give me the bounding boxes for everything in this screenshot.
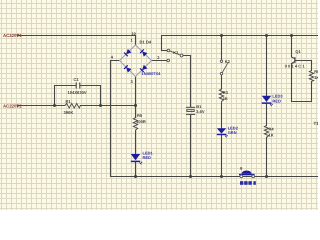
LED LED3 xyxy=(262,94,284,106)
svg-text:390K: 390K xyxy=(64,110,74,115)
wire C1 branch left riser and top xyxy=(55,86,76,106)
wire bridge left lead down to bottom rail xyxy=(111,61,120,177)
svg-text:9014C1: 9014C1 xyxy=(285,64,306,69)
diode D1 upper-left xyxy=(124,49,131,56)
wire R1 right to bridge bottom node xyxy=(80,105,135,107)
resistor R5 xyxy=(133,113,146,132)
wire K2 bottom to R3 xyxy=(221,75,223,89)
wire R4 to rail xyxy=(266,138,268,177)
diode D3 lower-left xyxy=(124,65,131,72)
svg-text:R6: R6 xyxy=(314,69,318,74)
svg-text:1K: 1K xyxy=(223,96,228,101)
wire R3 to LED2 xyxy=(221,104,223,129)
junction node K2 top rail xyxy=(220,34,223,37)
junction node bridge-bottom / AC2 xyxy=(134,104,137,107)
svg-text:R4: R4 xyxy=(269,126,275,131)
bridge rectifier D1-D4 outline xyxy=(120,45,152,77)
svg-text:AC220V2: AC220V2 xyxy=(3,104,22,109)
diode D4 lower-right xyxy=(140,65,147,72)
wire C1 branch right side xyxy=(81,86,101,106)
resistor R6 xyxy=(309,69,320,81)
wire AC220V2 to RC node xyxy=(18,105,65,107)
wire top rail down to K2 xyxy=(221,36,223,61)
svg-text:K1: K1 xyxy=(173,50,179,55)
junction node LED2 bottom rail xyxy=(220,175,223,178)
svg-text:AC220V1: AC220V1 xyxy=(3,33,22,38)
wire top rail from K1 contact up and right to edge xyxy=(162,36,319,51)
junction node RC right xyxy=(99,104,102,107)
svg-text:10: 10 xyxy=(132,32,136,36)
transistor Q1 xyxy=(285,49,306,69)
junction node LED3 top rail xyxy=(265,34,268,37)
wire LED2 to rail xyxy=(221,135,223,177)
wire LED3 to R4 xyxy=(266,104,268,126)
svg-text:T1: T1 xyxy=(314,121,319,126)
wire bridge bottom lead xyxy=(135,77,137,118)
wire bridge right lead to K1 contact xyxy=(152,60,167,62)
svg-text:RED: RED xyxy=(272,98,281,103)
svg-text:3.6V: 3.6V xyxy=(196,109,205,114)
junction node R4 bottom rail xyxy=(265,175,268,178)
svg-text:R5: R5 xyxy=(137,113,143,118)
junction node battery bottom rail xyxy=(189,175,192,178)
svg-text:100R: 100R xyxy=(136,119,146,124)
port AC220V1 xyxy=(3,33,22,38)
resistor R4 xyxy=(264,126,274,138)
wire R6 bottom loop to emitter xyxy=(292,64,312,102)
wire bottom rail xyxy=(111,176,319,178)
svg-text:C1: C1 xyxy=(74,77,80,82)
junction node LED1 bottom rail xyxy=(134,175,137,178)
svg-text:1K: 1K xyxy=(314,75,318,80)
wire K1 upper contact feed xyxy=(162,50,168,52)
junction node RC left xyxy=(53,104,56,107)
svg-text:R1: R1 xyxy=(66,99,72,104)
svg-text:1N4007X4: 1N4007X4 xyxy=(142,71,162,76)
diode D2 upper-right xyxy=(140,49,147,56)
capacitor C1 xyxy=(68,77,87,95)
switch K1 xyxy=(167,49,183,62)
svg-text:R3: R3 xyxy=(223,90,229,95)
wire Q1 base to R6 top xyxy=(295,61,312,71)
svg-text:GRN: GRN xyxy=(228,130,237,135)
switch K2 xyxy=(220,59,230,75)
wire top rail down to Q1 collector xyxy=(291,36,293,58)
resistor R1 xyxy=(64,99,81,115)
LED LED1 xyxy=(131,151,154,165)
svg-text:RED: RED xyxy=(143,155,152,160)
battery B1 xyxy=(186,104,205,114)
LED LED2 xyxy=(217,126,239,138)
wire K1 common to battery top xyxy=(183,56,191,107)
buzzer B xyxy=(239,167,255,178)
svg-text:1K: 1K xyxy=(269,132,274,137)
wire AC220V1 to bridge top xyxy=(19,36,136,46)
wire battery bottom to rail xyxy=(190,115,192,177)
wire R5 to LED1 xyxy=(135,132,137,154)
wire top rail down to LED3 xyxy=(266,36,268,96)
junction node Q1 top rail xyxy=(290,34,293,37)
buzzer name blue glyphs xyxy=(240,181,256,185)
port AC220V2 xyxy=(3,104,22,109)
wire LED1 to bottom rail xyxy=(135,162,137,176)
svg-text:Q1: Q1 xyxy=(295,49,301,54)
svg-text:D1 D4: D1 D4 xyxy=(140,39,152,44)
resistor R3 xyxy=(219,89,228,104)
svg-text:104X630V: 104X630V xyxy=(68,90,87,95)
svg-text:K2: K2 xyxy=(225,59,231,64)
